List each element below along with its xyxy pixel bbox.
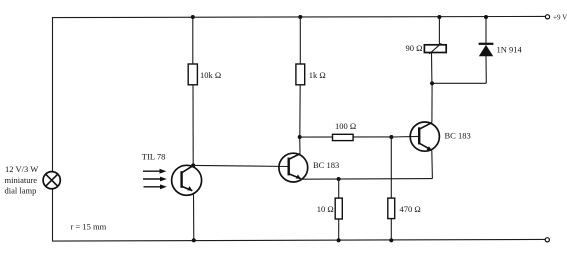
svg-text:10k Ω: 10k Ω bbox=[200, 70, 221, 80]
svg-text:miniature: miniature bbox=[5, 175, 38, 185]
svg-text:BC 183: BC 183 bbox=[445, 131, 471, 141]
svg-text:1k Ω: 1k Ω bbox=[309, 70, 326, 80]
svg-text:100 Ω: 100 Ω bbox=[335, 121, 356, 131]
svg-text:+9 V: +9 V bbox=[553, 14, 567, 22]
svg-text:470 Ω: 470 Ω bbox=[400, 204, 421, 214]
svg-text:TIL 78: TIL 78 bbox=[142, 152, 166, 162]
svg-text:BC 183: BC 183 bbox=[313, 160, 339, 170]
svg-text:12 V/3 W: 12 V/3 W bbox=[5, 164, 38, 174]
svg-text:1N 914: 1N 914 bbox=[497, 45, 523, 55]
svg-text:r = 15 mm: r = 15 mm bbox=[71, 222, 107, 232]
svg-text:90 Ω: 90 Ω bbox=[406, 43, 423, 53]
svg-text:10 Ω: 10 Ω bbox=[317, 204, 334, 214]
svg-text:dial lamp: dial lamp bbox=[5, 185, 37, 195]
